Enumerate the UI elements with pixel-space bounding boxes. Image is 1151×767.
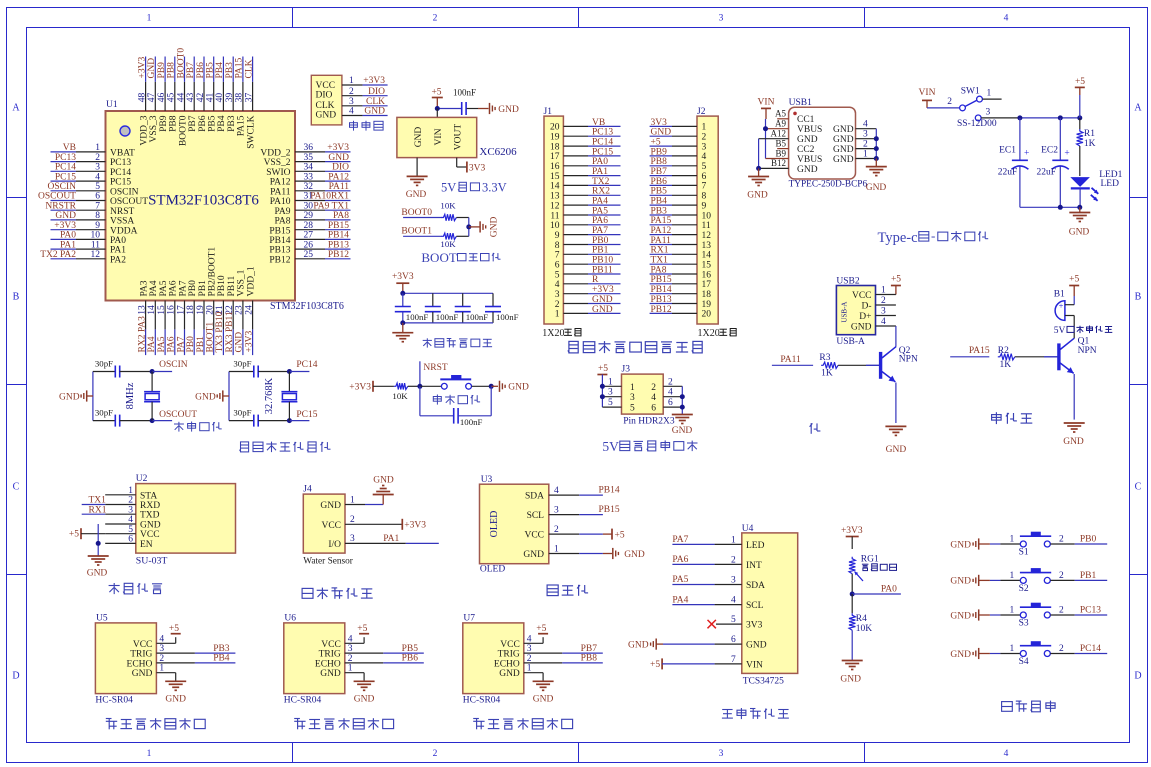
svg-text:PA0: PA0 — [881, 585, 897, 595]
svg-text:GND: GND — [833, 125, 854, 135]
svg-text:100nF: 100nF — [460, 417, 483, 427]
svg-text:B5: B5 — [775, 138, 786, 148]
svg-text:1: 1 — [1010, 571, 1015, 581]
svg-text:20: 20 — [206, 305, 216, 315]
svg-text:U5: U5 — [96, 614, 108, 624]
J2 pin 4 net PB9 — [650, 147, 707, 162]
connector J1 1X20 header — [544, 107, 564, 324]
wire crystal left branch — [92, 372, 94, 421]
svg-text:6: 6 — [731, 635, 736, 645]
svg-text:PB0: PB0 — [186, 336, 196, 353]
svg-text:PB1: PB1 — [592, 246, 609, 256]
U1 pin 48 VDD_3 — [137, 57, 149, 146]
U1 pin 39 PB3 — [225, 57, 237, 132]
svg-text:PC14: PC14 — [592, 138, 613, 148]
J2 pin 18 net PB14 — [650, 285, 712, 300]
svg-text:12: 12 — [550, 201, 560, 211]
ground GND U2 — [87, 556, 109, 579]
USB1 pin B9 VBUS — [766, 148, 789, 158]
capacitor 100nF filter 3 — [455, 293, 489, 323]
ground GND U7 — [533, 681, 554, 704]
download port pin 1 net +3V3 — [342, 76, 388, 86]
svg-text:1: 1 — [554, 545, 559, 555]
svg-text:4: 4 — [731, 596, 736, 606]
svg-text:GND: GND — [406, 190, 427, 200]
svg-text:PC13: PC13 — [110, 158, 131, 168]
ground GND U3 inline — [579, 548, 645, 560]
svg-text:S1: S1 — [1019, 548, 1029, 558]
svg-text:6: 6 — [555, 261, 560, 271]
svg-text:RX1: RX1 — [89, 505, 107, 515]
wire OSC top node — [287, 360, 318, 374]
J2 pin 15 net TX1 — [650, 256, 712, 271]
svg-text:SWCLK: SWCLK — [246, 115, 256, 148]
svg-text:GND: GND — [833, 135, 854, 145]
U1 pin 43 PB7 — [186, 57, 198, 132]
svg-text:ECHO: ECHO — [315, 659, 341, 669]
ground GND power circuit — [1069, 207, 1091, 237]
svg-text:+3V3: +3V3 — [327, 143, 349, 153]
svg-text:12: 12 — [91, 250, 101, 260]
svg-text:PA11: PA11 — [780, 355, 801, 365]
svg-text:GND: GND — [950, 611, 971, 621]
svg-text:1: 1 — [608, 377, 613, 387]
svg-text:PA15: PA15 — [651, 216, 672, 226]
svg-text:48: 48 — [137, 93, 147, 103]
svg-text:OLED: OLED — [480, 565, 505, 575]
svg-text:VCC: VCC — [321, 640, 341, 650]
svg-text:GND: GND — [320, 669, 341, 679]
svg-text:GND: GND — [651, 128, 672, 138]
U5 pin 3 TRIG net PB3 — [156, 644, 235, 654]
svg-text:100nF: 100nF — [436, 312, 459, 322]
svg-text:3: 3 — [881, 307, 886, 317]
power +5 U3 — [579, 529, 625, 541]
svg-text:PA8: PA8 — [274, 217, 290, 227]
svg-text:HC-SR04: HC-SR04 — [463, 696, 501, 706]
crystal 32.768K — [264, 372, 298, 421]
svg-text:PB13: PB13 — [269, 246, 290, 256]
svg-text:+5: +5 — [431, 88, 441, 98]
ground GND S3 — [950, 609, 1000, 621]
power +5 flag USB2 — [891, 275, 901, 295]
svg-text:4: 4 — [159, 634, 164, 644]
ground GND BOOT — [480, 216, 499, 237]
label crystal title — [174, 422, 222, 432]
svg-text:VB: VB — [63, 143, 76, 153]
svg-text:GND: GND — [746, 641, 767, 651]
power +3V3 filter caps — [392, 272, 414, 293]
svg-text:1: 1 — [350, 495, 355, 505]
svg-text:OSCIN: OSCIN — [159, 360, 188, 370]
svg-text:GND: GND — [866, 183, 887, 193]
wire power circuit bottom bus — [1020, 205, 1082, 210]
svg-text:6: 6 — [95, 192, 100, 202]
svg-text:PC15: PC15 — [110, 178, 131, 188]
J2 pin 12 net PA12 — [650, 226, 712, 241]
U1 pin 18 PB0 — [186, 280, 198, 355]
svg-text:26: 26 — [304, 240, 314, 250]
svg-text:1: 1 — [349, 76, 354, 86]
svg-text:5V: 5V — [602, 439, 619, 454]
svg-text:8: 8 — [95, 211, 100, 221]
U5 pin 4 VCC +5 — [156, 624, 180, 644]
svg-text:PB15: PB15 — [599, 505, 620, 515]
svg-text:TCS34725: TCS34725 — [743, 677, 784, 687]
svg-text:RX1: RX1 — [651, 246, 669, 256]
svg-text:GND: GND — [59, 393, 80, 403]
svg-text:VCC: VCC — [321, 521, 341, 531]
J1 pin 14 net TX2 — [550, 177, 621, 192]
svg-text:32.768K: 32.768K — [264, 377, 275, 414]
U4 pin 6 GND — [628, 635, 742, 650]
svg-text:34: 34 — [304, 163, 314, 173]
svg-text:GND: GND — [747, 191, 768, 201]
svg-text:B1: B1 — [1054, 290, 1065, 300]
svg-text:GND: GND — [1069, 228, 1090, 238]
svg-text:3: 3 — [555, 290, 560, 300]
svg-text:1: 1 — [987, 89, 992, 99]
svg-text:3V3: 3V3 — [469, 163, 486, 173]
svg-text:11: 11 — [702, 221, 711, 231]
svg-text:GND: GND — [508, 383, 529, 393]
svg-text:1: 1 — [95, 143, 100, 153]
U1 pin 38 PA15 — [235, 57, 247, 137]
svg-text:PA0: PA0 — [110, 236, 126, 246]
svg-text:GND: GND — [797, 135, 818, 145]
button S4 — [1000, 642, 1074, 667]
U4 pin 4 net PA4 — [672, 595, 741, 605]
svg-text:XC6206: XC6206 — [479, 146, 517, 158]
svg-text:PB4: PB4 — [217, 115, 227, 132]
U4 pin 7 VIN +5 — [650, 655, 742, 670]
wire filter cap bottom bus — [400, 320, 493, 325]
power +5 flag power circuit — [1075, 77, 1086, 118]
label ultrasonic title U6 — [294, 718, 393, 729]
resistor R3 1K — [819, 353, 879, 378]
svg-text:TXD: TXD — [140, 511, 160, 521]
net label PC14 — [1075, 644, 1108, 654]
J3 pin 4 — [663, 388, 682, 398]
svg-text:2: 2 — [668, 377, 673, 387]
U1 pin 9 VDDA — [51, 221, 138, 236]
ground GND USB1 left — [747, 168, 769, 200]
svg-text:GND: GND — [498, 105, 519, 115]
svg-text:PB3: PB3 — [227, 115, 237, 132]
J1 pin 15 net PA1 — [550, 167, 621, 182]
J3 pin 3 — [602, 388, 621, 398]
svg-text:BOOT0: BOOT0 — [176, 48, 186, 79]
label display title — [547, 585, 588, 596]
USB2 pin 4 — [876, 317, 896, 327]
svg-text:PB12: PB12 — [651, 305, 672, 315]
svg-text:PB10: PB10 — [592, 256, 613, 266]
svg-text:10K: 10K — [440, 239, 456, 249]
svg-text:9: 9 — [555, 231, 560, 241]
svg-text:CLK: CLK — [366, 97, 385, 107]
U1 pin 31 PA10 — [270, 192, 351, 207]
svg-text:GND: GND — [132, 669, 153, 679]
U1 pin 33 PA12 — [270, 172, 351, 187]
svg-text:46: 46 — [157, 93, 167, 103]
svg-text:PB0: PB0 — [1080, 535, 1097, 545]
svg-text:NRST: NRST — [423, 363, 447, 373]
svg-text:VSS_2: VSS_2 — [264, 158, 291, 168]
svg-text:11: 11 — [91, 240, 100, 250]
svg-text:45: 45 — [167, 93, 177, 103]
svg-text:OSCIN: OSCIN — [110, 187, 139, 197]
svg-text:A5: A5 — [775, 109, 786, 119]
svg-text:DIO: DIO — [368, 87, 385, 97]
J1 pin 6 net PB10 — [555, 256, 621, 271]
svg-text:PA9: PA9 — [274, 207, 290, 217]
label download port title — [350, 121, 384, 131]
svg-text:PC15: PC15 — [296, 410, 317, 420]
svg-text:5: 5 — [608, 398, 613, 408]
J2 pin 7 net PB6 — [650, 177, 707, 192]
svg-text:B12: B12 — [771, 158, 786, 168]
J1 pin 5 net PB11 — [555, 265, 621, 280]
svg-text:GND: GND — [523, 550, 544, 560]
capacitor EC1 22uF — [998, 118, 1030, 207]
label J2 1X20 — [698, 328, 737, 339]
svg-text:2: 2 — [348, 654, 353, 664]
svg-text:GND: GND — [373, 476, 394, 486]
svg-text:13: 13 — [550, 192, 560, 202]
svg-text:3: 3 — [986, 108, 991, 118]
svg-text:1K: 1K — [1084, 139, 1096, 149]
svg-text:D-: D- — [861, 301, 871, 311]
J2 pin 3 net +5 — [650, 138, 707, 153]
svg-text:CLK: CLK — [244, 59, 254, 78]
svg-text:2: 2 — [881, 296, 886, 306]
svg-text:SDA: SDA — [525, 492, 544, 502]
USB1 pin 1 GND — [856, 150, 877, 160]
J2 pin 19 net PB13 — [650, 295, 712, 310]
svg-text:VSS_3: VSS_3 — [149, 115, 159, 142]
U1 pin 28 PB15 — [269, 221, 350, 236]
button S3 — [1000, 603, 1074, 628]
connector J4 Water Sensor — [303, 485, 353, 567]
U1 pin 3 PC14 — [51, 163, 132, 178]
svg-text:2: 2 — [159, 654, 164, 664]
wire filter cap top bus — [400, 291, 493, 296]
svg-text:PB10: PB10 — [217, 275, 227, 296]
net label PB14 — [579, 486, 620, 496]
svg-text:1: 1 — [348, 664, 353, 674]
J4 pin 2 VCC — [345, 515, 402, 525]
U1 pin 17 PA7 — [176, 280, 188, 355]
label headers title — [568, 341, 702, 353]
ground GND at regulator — [406, 158, 428, 200]
U6 pin 2 ECHO net PB6 — [345, 654, 424, 664]
svg-text:+3V3: +3V3 — [392, 272, 414, 282]
buzzer B1 — [1054, 290, 1075, 339]
connector USB2 USB-A — [836, 277, 875, 348]
U4 pin 5 no connect — [708, 615, 742, 628]
svg-text:TRIG: TRIG — [319, 650, 341, 660]
svg-text:2: 2 — [350, 515, 355, 525]
label BOOT circuit title — [421, 250, 500, 265]
svg-text:PC14: PC14 — [1080, 644, 1101, 654]
svg-text:GND: GND — [316, 110, 337, 120]
svg-text:PB14: PB14 — [328, 231, 349, 241]
svg-text:41: 41 — [206, 93, 216, 103]
button S2 — [1000, 569, 1074, 594]
svg-text:PB8: PB8 — [167, 62, 177, 79]
U1 pin 23 VSS_1 — [235, 269, 247, 355]
svg-text:+5: +5 — [169, 624, 179, 634]
svg-text:PB7: PB7 — [581, 644, 598, 654]
J3 pin 2 — [663, 377, 682, 387]
svg-text:1: 1 — [1010, 535, 1015, 545]
svg-text:1: 1 — [863, 150, 868, 160]
svg-text:13: 13 — [702, 241, 712, 251]
svg-text:VIN: VIN — [919, 88, 936, 98]
svg-text:3: 3 — [350, 534, 355, 544]
svg-text:14: 14 — [550, 182, 560, 192]
USB1 pin 3 GND — [856, 130, 877, 140]
connector P1 download port — [311, 75, 342, 125]
resistor R 10K BOOT0 — [440, 200, 468, 220]
J1 pin 13 net RX2 — [550, 187, 621, 202]
J3 pin 6 — [663, 398, 682, 408]
svg-text:RX2: RX2 — [592, 187, 610, 197]
svg-text:+5: +5 — [1075, 77, 1085, 87]
svg-text:CLK: CLK — [316, 101, 335, 111]
svg-text:1X20: 1X20 — [698, 328, 720, 339]
label 5V active buzzer — [1054, 326, 1113, 337]
svg-text:PC14: PC14 — [296, 360, 317, 370]
svg-text:3: 3 — [527, 644, 532, 654]
svg-text:U6: U6 — [284, 614, 296, 624]
svg-text:1: 1 — [702, 123, 707, 133]
label reset circuit title — [433, 395, 480, 405]
button S1 — [1000, 532, 1074, 557]
svg-text:GND: GND — [672, 426, 693, 436]
U1 pin 8 VSSA — [51, 211, 135, 226]
svg-text:PB4: PB4 — [651, 197, 668, 207]
svg-text:1: 1 — [731, 535, 736, 545]
J1 pin 3 net +3V3 — [555, 285, 621, 300]
svg-text:PB8: PB8 — [581, 654, 598, 664]
led LED1 — [1070, 170, 1122, 207]
J1 pin 10 net PA6 — [550, 216, 621, 231]
wire SW1 pin3 to +5 node — [981, 115, 1082, 120]
svg-text:GND: GND — [833, 155, 854, 165]
ic U5 HC-SR04 — [95, 614, 156, 706]
svg-text:VBUS: VBUS — [797, 155, 822, 165]
USB1 pin 4 GND — [856, 120, 877, 130]
svg-text:PA1: PA1 — [110, 246, 126, 256]
svg-text:PB0: PB0 — [188, 280, 198, 297]
U2 pin 4 GND — [105, 515, 161, 530]
capacitor 30pF top — [93, 358, 152, 377]
wire OSC bottom node — [150, 410, 198, 423]
svg-text:8: 8 — [702, 192, 707, 202]
svg-text:+5: +5 — [891, 275, 901, 285]
svg-text:2: 2 — [433, 749, 438, 759]
power +3V3 J4 — [402, 519, 426, 531]
net label PC13 — [1075, 606, 1108, 616]
svg-text:VCC: VCC — [316, 81, 336, 91]
U5 pin 2 ECHO net PB4 — [156, 654, 235, 664]
svg-text:4: 4 — [349, 107, 354, 117]
svg-text:C: C — [13, 482, 20, 493]
svg-text:GND: GND — [320, 501, 341, 511]
svg-text:PB5: PB5 — [651, 187, 668, 197]
J1 pin 1 net GND — [555, 305, 621, 320]
ic U4 TCS34725 — [742, 524, 798, 687]
svg-text:GND: GND — [628, 640, 649, 650]
svg-text:STM32F103C8T6: STM32F103C8T6 — [270, 301, 344, 312]
svg-text:VDD_3: VDD_3 — [139, 115, 149, 145]
net label RX1 U2 — [82, 505, 107, 515]
svg-text:PA4: PA4 — [147, 336, 157, 352]
svg-text:PA15: PA15 — [969, 346, 990, 356]
svg-text:2: 2 — [555, 300, 560, 310]
svg-text:PB6: PB6 — [198, 115, 208, 132]
svg-text:PB0: PB0 — [592, 236, 609, 246]
svg-text:GND: GND — [235, 332, 245, 353]
svg-text:J4: J4 — [303, 485, 312, 495]
svg-text:PA0: PA0 — [60, 231, 76, 241]
svg-text:+3V3: +3V3 — [54, 221, 76, 231]
svg-text:TX3 PB10: TX3 PB10 — [215, 311, 225, 352]
svg-text:A9: A9 — [775, 119, 786, 129]
svg-text:3: 3 — [731, 576, 736, 586]
svg-text:30: 30 — [304, 201, 314, 211]
svg-text:22uF: 22uF — [1036, 168, 1056, 178]
svg-text:PA5: PA5 — [159, 280, 169, 296]
svg-text:PB9: PB9 — [159, 115, 169, 132]
svg-text:PA4: PA4 — [149, 280, 159, 296]
svg-text:8MHz: 8MHz — [125, 382, 136, 409]
svg-text:PB14: PB14 — [599, 486, 620, 496]
svg-text:3.3V: 3.3V — [482, 181, 507, 195]
J2 pin 14 net RX1 — [650, 246, 712, 261]
svg-text:GND: GND — [950, 540, 971, 550]
svg-text:1: 1 — [527, 664, 532, 674]
svg-text:U3: U3 — [481, 475, 493, 485]
svg-text:LED: LED — [746, 541, 765, 551]
svg-text:2: 2 — [95, 153, 100, 163]
svg-text:VDD_1: VDD_1 — [246, 266, 256, 296]
J4 pin 1 GND — [345, 495, 383, 506]
svg-text:4: 4 — [1004, 749, 1009, 759]
svg-text:4: 4 — [95, 172, 100, 182]
svg-text:3: 3 — [702, 142, 707, 152]
svg-text:6: 6 — [668, 398, 673, 408]
U1 pin 5 OSCIN — [47, 182, 138, 197]
U1 pin 25 PB12 — [269, 250, 350, 265]
svg-text:PA6: PA6 — [167, 336, 177, 352]
svg-text:16: 16 — [702, 270, 712, 280]
U1 pin 42 PB6 — [196, 57, 208, 132]
svg-text:VIN: VIN — [758, 98, 775, 108]
svg-text:22uF: 22uF — [998, 168, 1018, 178]
svg-text:18: 18 — [550, 142, 560, 152]
svg-text:12: 12 — [702, 231, 712, 241]
svg-text:2: 2 — [702, 133, 707, 143]
J2 pin 16 net PA8 — [650, 265, 712, 280]
svg-text:SS-12D00: SS-12D00 — [957, 119, 997, 129]
svg-text:2: 2 — [1059, 535, 1064, 545]
svg-text:NPN: NPN — [899, 355, 918, 365]
U1 pin 46 PB9 — [157, 57, 169, 132]
svg-text:PB14: PB14 — [269, 236, 290, 246]
svg-text:GND: GND — [87, 569, 108, 579]
